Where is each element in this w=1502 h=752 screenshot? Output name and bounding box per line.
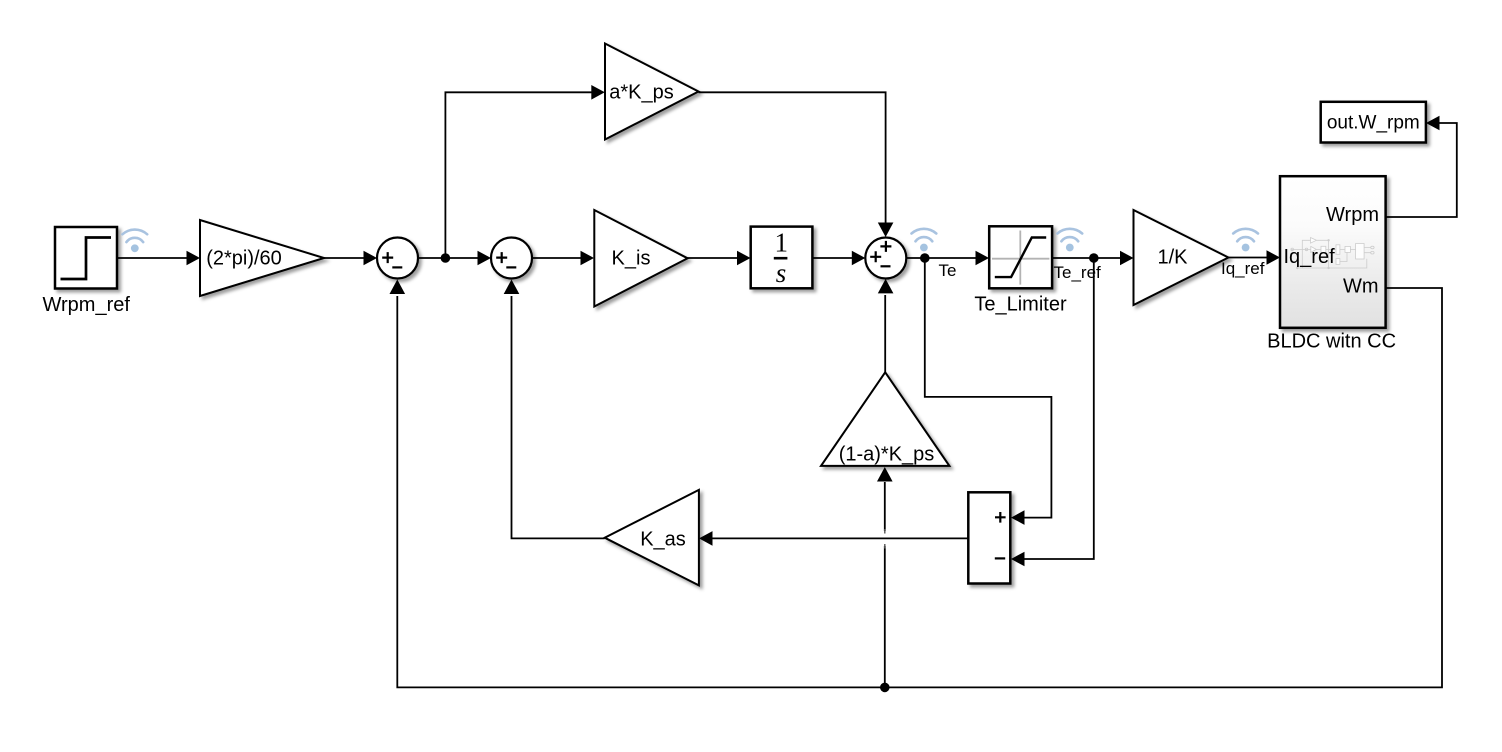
svg-text:a*K_ps: a*K_ps (609, 82, 674, 104)
svg-text:Wrpm: Wrpm (1326, 204, 1379, 226)
gain block (2*pi)/60 (200, 220, 324, 296)
gain block 1/K (1134, 210, 1229, 305)
branch junction dot on Te_ref signal (1089, 253, 1099, 263)
subtract block (+ upper, - lower) (968, 492, 1010, 583)
to-workspace block out.W_rpm (1321, 102, 1426, 143)
svg-text:BLDC witn CC: BLDC witn CC (1267, 331, 1396, 353)
svg-text:Te: Te (939, 261, 957, 280)
svg-text:1/K: 1/K (1157, 247, 1188, 269)
svg-text:K_as: K_as (640, 529, 686, 551)
wire sum 1 to sum 2 with arrowhead (418, 251, 491, 266)
sum junction 1 (+ left, - bottom) (377, 238, 418, 279)
wire Te branch down and right to subtract + input with arrowhead (925, 258, 1052, 525)
branch junction dot on Te signal (920, 253, 930, 263)
svg-text:out.W_rpm: out.W_rpm (1327, 113, 1420, 134)
sum junction 2 (+ left, - bottom) (491, 238, 532, 279)
svg-text:Iq_ref: Iq_ref (1221, 259, 1265, 278)
wire Wm port feedback to sum 1 bottom input with arrowhead (390, 280, 1443, 688)
svg-text:(2*pi)/60: (2*pi)/60 (206, 248, 282, 270)
gain block K_as (605, 490, 699, 586)
wire Te_ref branch down to subtract - input with arrowhead (1011, 258, 1094, 566)
saturation block Te_Limiter (989, 226, 1052, 288)
wire Wrpm port to out.W_rpm with arrowhead (1386, 116, 1457, 217)
svg-text:(1-a)*K_ps: (1-a)*K_ps (839, 444, 935, 466)
subsystem block BLDC witn CC (1280, 176, 1386, 328)
wire 1/K to BLDC subsystem with arrowhead (1228, 250, 1280, 265)
signal logging badge on Iq_ref signal (1233, 229, 1258, 252)
wire branch dot up to gain (1-a)*K_ps with arrowhead and crossover gap (877, 467, 893, 687)
wire sum 3 to Te_Limiter with arrowhead (906, 251, 989, 266)
wire integrator to sum junction 3 with arrowhead (812, 251, 865, 266)
wire (1-a)*K_ps to sum junction 3 bottom input with arrowhead (878, 279, 894, 372)
wire K_is to integrator with arrowhead (688, 251, 751, 266)
wire sum 2 to gain K_is with arrowhead (532, 251, 594, 266)
branch junction dot on bottom feedback wire (880, 683, 890, 693)
svg-text:Iq_ref: Iq_ref (1284, 246, 1336, 268)
svg-text:Te_Limiter: Te_Limiter (974, 294, 1067, 316)
wire gain (2*pi)/60 to sum junction 1 with arrowhead (324, 251, 377, 266)
svg-text:K_is: K_is (612, 248, 651, 270)
step source block Wrpm_ref (55, 227, 117, 289)
svg-text:1: 1 (775, 228, 789, 258)
wire step to gain (2*pi)/60 with arrowhead (118, 251, 201, 266)
signal logging badge on Wrpm_ref output (122, 230, 147, 253)
wire branch dot up and right to gain a*K_ps with arrowhead (445, 85, 604, 258)
wire K_as to sum junction 2 bottom input with arrowhead (504, 280, 605, 539)
wire subtract output to gain K_as with arrowhead (699, 531, 968, 546)
sum junction 3 (+ top, + left, - bottom) (865, 238, 906, 279)
gain block (1-a)*K_ps (821, 372, 949, 466)
svg-text:Wm: Wm (1343, 276, 1379, 298)
gain block K_is (594, 210, 687, 307)
integrator block 1/s (751, 227, 813, 289)
gain block a*K_ps (605, 44, 699, 140)
signal logging badge on Te signal (912, 229, 937, 252)
wire Te_Limiter to gain 1/K with arrowhead (1052, 251, 1133, 266)
svg-text:Wrpm_ref: Wrpm_ref (42, 294, 130, 316)
svg-text:s: s (776, 258, 787, 288)
signal logging badge on Te_ref signal (1057, 229, 1082, 252)
wire a*K_ps to sum junction 3 top input with arrowhead (699, 92, 894, 237)
branch junction dot after sum 1 (441, 253, 451, 263)
